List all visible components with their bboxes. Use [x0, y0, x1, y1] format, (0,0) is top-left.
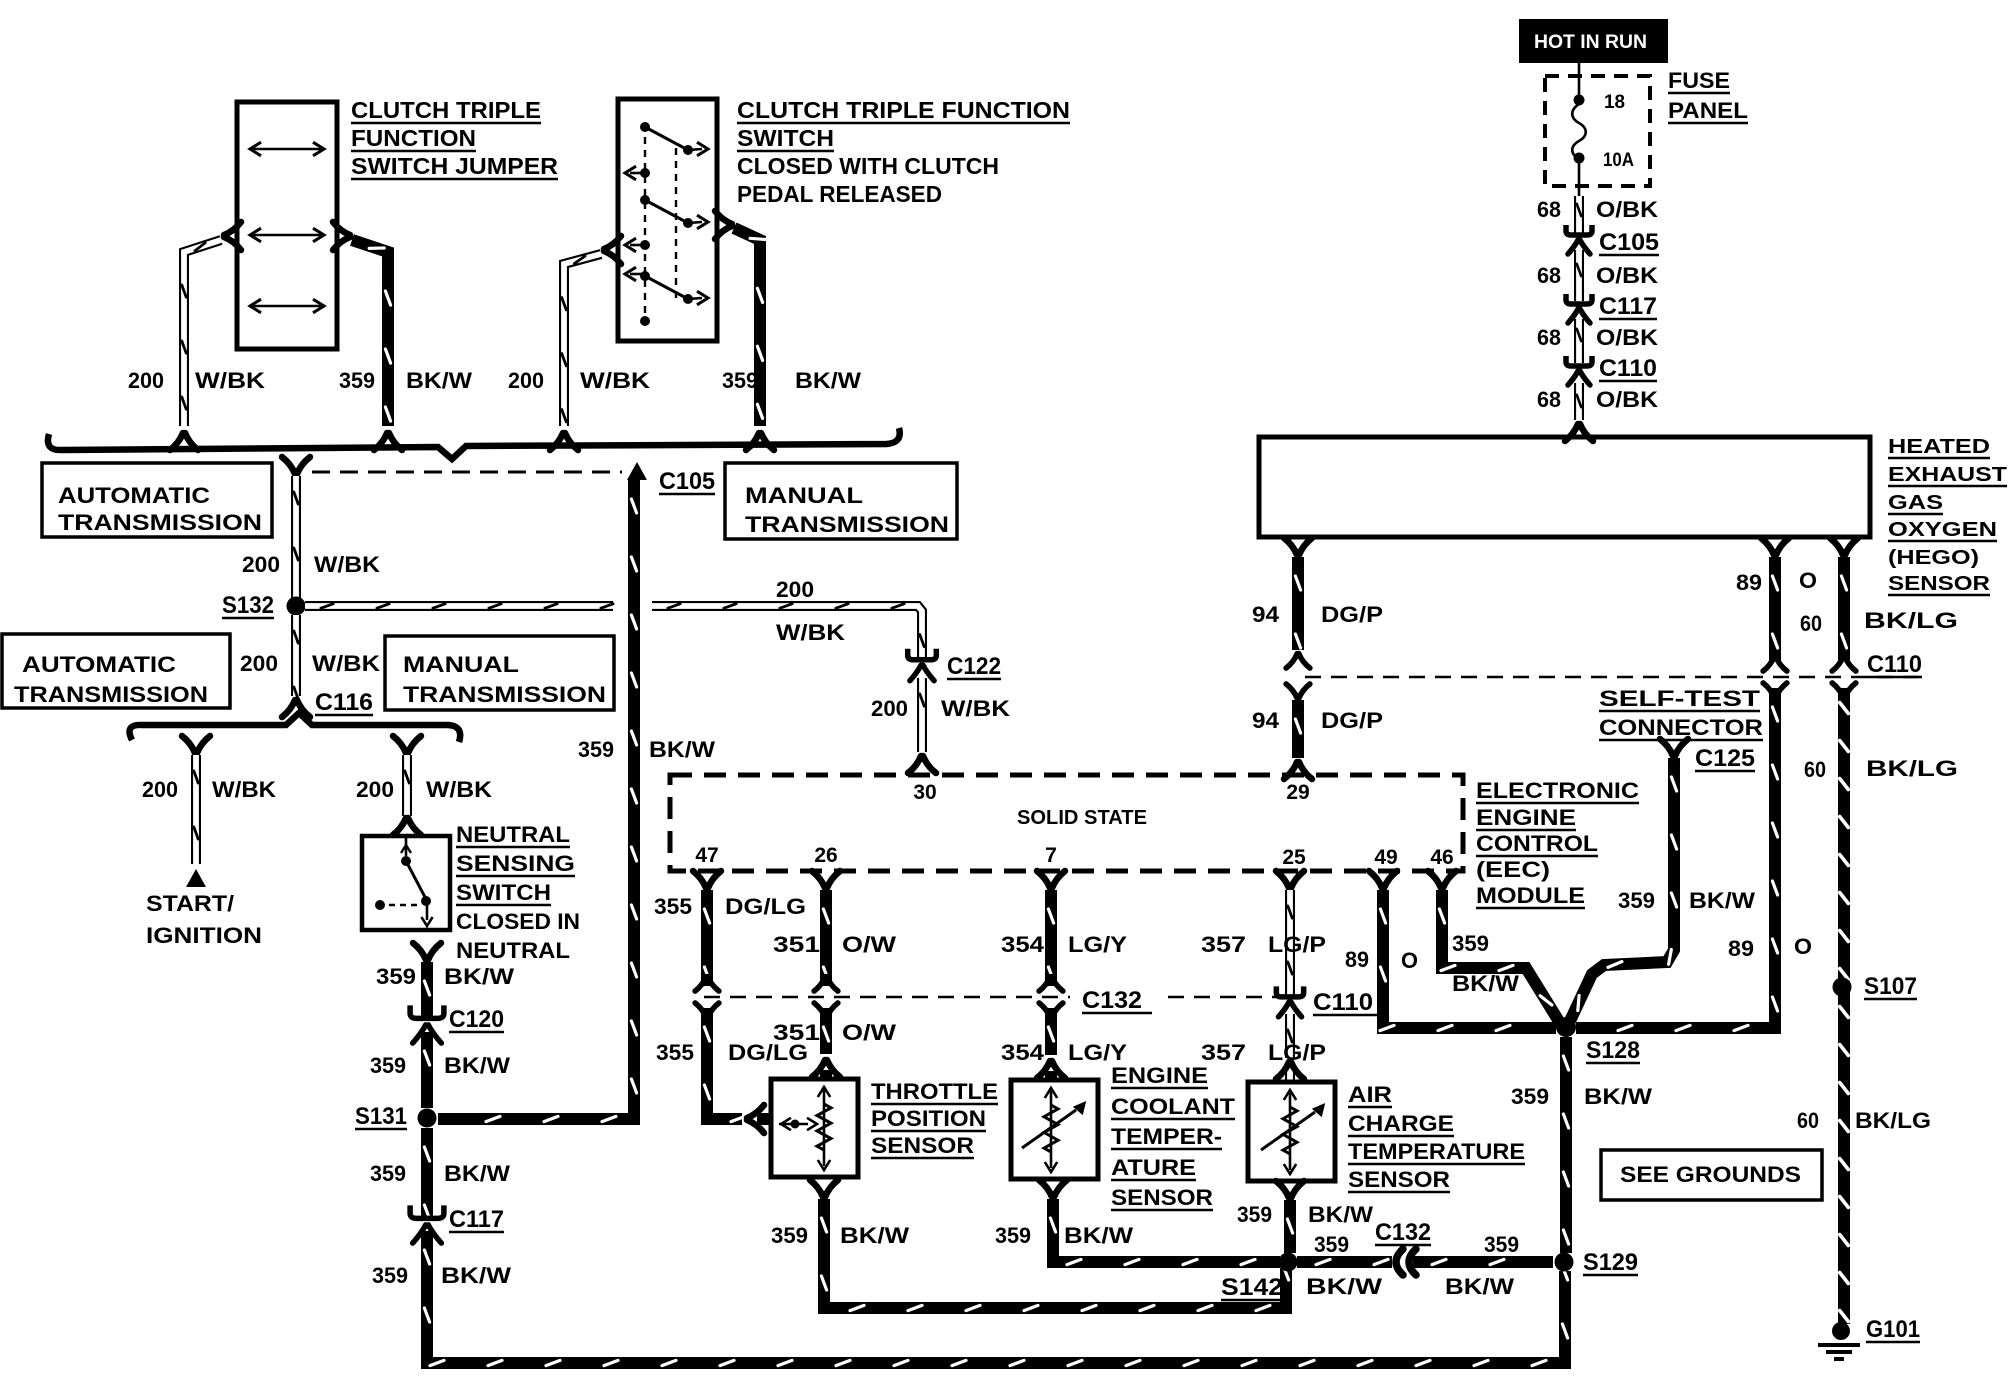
label 359 BK/W at pin 46 [1452, 931, 1519, 996]
svg-text:89: 89 [1728, 936, 1754, 961]
svg-text:ELECTRONIC: ELECTRONIC [1476, 778, 1639, 803]
svg-text:BK/W: BK/W [1445, 1274, 1514, 1299]
svg-text:FUNCTION: FUNCTION [351, 125, 476, 151]
svg-text:CLOSED IN: CLOSED IN [456, 909, 580, 934]
svg-text:OXYGEN: OXYGEN [1888, 519, 1997, 541]
svg-text:354: 354 [1001, 932, 1045, 957]
svg-text:355: 355 [654, 894, 692, 919]
label 200 W/BK [871, 696, 1010, 721]
label AIR CHARGE TEMPERATURE SENSOR [1348, 1082, 1525, 1192]
connector C120 [410, 1005, 504, 1043]
svg-text:C117: C117 [1599, 293, 1657, 320]
svg-text:W/BK: W/BK [776, 620, 845, 645]
clutch triple function switch jumper box [237, 102, 337, 349]
label 200 W/BK [508, 368, 650, 393]
svg-text:359: 359 [339, 368, 375, 393]
svg-text:359: 359 [1511, 1084, 1549, 1109]
wire 359 BK/W engine coolant temperature sensor to S142 [1039, 1180, 1280, 1265]
wire 68 O/BK C117 to C110 [1574, 319, 1584, 363]
svg-text:LG/P: LG/P [1268, 1040, 1326, 1065]
svg-text:C122: C122 [947, 653, 1001, 680]
wire 60 BK/LG HEGO to G101 [1830, 538, 1858, 1324]
svg-text:60: 60 [1800, 611, 1822, 636]
manual transmission label box upper [725, 463, 957, 539]
svg-text:89: 89 [1736, 570, 1762, 595]
connector C122 [908, 649, 1001, 681]
wire 359 BK/W pin 46 to S128 [1428, 871, 1560, 1023]
label NEUTRAL SENSING SWITCH CLOSED IN NEUTRAL [456, 822, 580, 963]
svg-text:C125: C125 [1695, 745, 1755, 772]
label 60 BK/LG middle [1804, 756, 1958, 782]
wire 359 BK/W C132 to S129 [1413, 1256, 1553, 1268]
svg-text:S132: S132 [222, 592, 274, 619]
connector C117 inline [1566, 293, 1657, 323]
svg-text:DG/P: DG/P [1321, 602, 1383, 627]
svg-text:SENSOR: SENSOR [1111, 1185, 1213, 1210]
svg-text:O/BK: O/BK [1596, 197, 1658, 222]
svg-text:SWITCH JUMPER: SWITCH JUMPER [351, 153, 558, 179]
svg-text:200: 200 [142, 777, 178, 802]
svg-text:BK/W: BK/W [649, 737, 715, 762]
svg-text:TRANSMISSION: TRANSMISSION [58, 510, 262, 535]
wire 359 BK/W S142 to C132 [1297, 1256, 1392, 1268]
label ELECTRONIC ENGINE CONTROL (EEC) MODULE [1476, 778, 1639, 908]
svg-text:S131: S131 [355, 1103, 407, 1130]
connector C105 arrow [627, 462, 647, 480]
wire 68 O/BK C105 to C117 [1574, 250, 1584, 301]
connector C105 inline [1566, 225, 1659, 256]
svg-text:BK/W: BK/W [840, 1223, 909, 1248]
label 60 BK/LG lower [1797, 1108, 1931, 1133]
svg-text:BK/W: BK/W [1064, 1223, 1133, 1248]
label C105 [659, 468, 715, 495]
svg-text:68: 68 [1537, 325, 1561, 350]
svg-text:359: 359 [376, 964, 416, 989]
svg-text:357: 357 [1201, 932, 1246, 957]
svg-text:BK/W: BK/W [444, 1161, 510, 1186]
wire 359 BK/W right of switch [715, 211, 774, 450]
svg-text:C105: C105 [1599, 229, 1659, 256]
svg-text:(HEGO): (HEGO) [1888, 547, 1979, 569]
label 94 DG/P upper [1252, 602, 1383, 627]
wire 200 W/BK left of switch [550, 236, 621, 450]
svg-text:SENSING: SENSING [456, 851, 575, 876]
svg-text:HEATED: HEATED [1888, 436, 1990, 458]
svg-text:200: 200 [128, 368, 164, 393]
label CLUTCH TRIPLE FUNCTION SWITCH JUMPER [351, 97, 558, 179]
svg-text:46: 46 [1430, 846, 1453, 869]
wire 94 DG/P C110 to EEC pin 29 [1284, 684, 1312, 779]
label 89 O upper [1736, 568, 1817, 595]
wire 200 W/BK to start/ignition [182, 736, 210, 864]
svg-text:SEE GROUNDS: SEE GROUNDS [1620, 1162, 1801, 1187]
label FUSE PANEL [1668, 68, 1748, 123]
svg-text:TEMPER-: TEMPER- [1111, 1124, 1222, 1149]
wire 359 BK/W C120 to S131 [421, 1032, 433, 1108]
svg-text:NEUTRAL: NEUTRAL [456, 822, 570, 847]
wire hatch marks 68 O/BK [1577, 204, 1581, 407]
label 359 BK/W at self-test [1618, 888, 1755, 913]
label 359 BK/W left of C132 [1306, 1232, 1382, 1299]
wire 355 DG/LG pin 47 to throttle position sensor [693, 871, 771, 1133]
svg-text:W/BK: W/BK [426, 777, 492, 802]
start/ignition source arrow [186, 869, 206, 887]
splice S129 [1555, 1249, 1639, 1276]
wire 200 W/BK from S132 to C122 [305, 604, 924, 657]
label THROTTLE POSITION SENSOR [871, 1079, 998, 1158]
svg-text:THROTTLE: THROTTLE [871, 1079, 998, 1104]
wire 354 LG/Y pin 7 to engine coolant temperature sensor [1037, 871, 1065, 1080]
wire 359 BK/W S128 to S129 [1560, 1037, 1572, 1253]
wire 359 BK/W right of switch jumper [333, 222, 402, 450]
wire bus bracket upper [48, 428, 900, 459]
connector C110 inline [1566, 355, 1657, 385]
label 359 BK/W [995, 1223, 1133, 1248]
heated exhaust gas oxygen sensor box [1259, 437, 1870, 537]
wire 200 W/BK bracket to S132 [282, 457, 310, 598]
svg-text:359: 359 [578, 737, 614, 762]
wire 359 BK/W self-test connector to S128 [1570, 758, 1674, 1021]
label 357 LG/P upper [1201, 932, 1326, 957]
ground G101 [1818, 1322, 1860, 1359]
svg-text:SWITCH: SWITCH [456, 880, 551, 905]
label 94 DG/P lower [1252, 708, 1383, 733]
svg-text:354: 354 [1001, 1040, 1045, 1065]
svg-text:NEUTRAL: NEUTRAL [456, 938, 570, 963]
wire 68 O/BK C110 to HEGO [1565, 383, 1593, 441]
svg-text:351: 351 [773, 932, 820, 957]
label 359 BK/W [370, 1161, 510, 1186]
svg-text:AIR: AIR [1348, 1082, 1392, 1107]
label 200 W/BK [356, 777, 492, 802]
svg-text:AUTOMATIC: AUTOMATIC [58, 483, 210, 508]
svg-text:BK/W: BK/W [441, 1263, 511, 1288]
svg-text:O: O [1799, 568, 1817, 593]
label 89 O lower [1728, 934, 1812, 961]
wire 200 W/BK to neutral sensing switch [393, 736, 421, 835]
svg-text:CONTROL: CONTROL [1476, 831, 1598, 856]
svg-text:W/BK: W/BK [195, 368, 265, 393]
label 200 W/BK [240, 651, 380, 676]
wire 200 W/BK C122 to EEC pin 30 [908, 678, 936, 773]
svg-text:CLUTCH TRIPLE: CLUTCH TRIPLE [351, 97, 541, 123]
splice S131 [355, 1103, 437, 1130]
svg-text:(EEC): (EEC) [1476, 857, 1550, 882]
svg-text:359: 359 [995, 1223, 1031, 1248]
wire 359 BK/W air charge temperature sensor to S142 [1276, 1181, 1304, 1253]
svg-text:359: 359 [771, 1223, 808, 1248]
svg-text:COOLANT: COOLANT [1111, 1094, 1236, 1119]
connector C117 lower [410, 1205, 504, 1243]
svg-text:200: 200 [242, 552, 280, 577]
svg-text:ENGINE: ENGINE [1476, 805, 1576, 830]
svg-text:359: 359 [1618, 888, 1655, 913]
svg-text:BK/W: BK/W [444, 1053, 510, 1078]
svg-text:S128: S128 [1586, 1037, 1640, 1064]
label 68 O/BK [1537, 197, 1658, 222]
svg-text:EXHAUST: EXHAUST [1888, 464, 2007, 486]
svg-text:W/BK: W/BK [580, 368, 650, 393]
label 359 BK/W [578, 737, 715, 762]
svg-text:TRANSMISSION: TRANSMISSION [14, 682, 208, 707]
svg-text:BK/LG: BK/LG [1864, 608, 1958, 633]
label 200 W/BK [242, 552, 380, 577]
svg-text:68: 68 [1537, 387, 1561, 412]
svg-text:MANUAL: MANUAL [403, 652, 519, 677]
svg-text:TEMPERATURE: TEMPERATURE [1348, 1139, 1525, 1164]
label 359 BK/W [376, 964, 514, 989]
svg-text:200: 200 [356, 777, 394, 802]
wire 359 BK/W from C105 to S131 [438, 480, 634, 1119]
svg-text:29: 29 [1286, 781, 1309, 804]
svg-text:CHARGE: CHARGE [1348, 1111, 1454, 1136]
svg-text:68: 68 [1537, 263, 1561, 288]
svg-text:C132: C132 [1082, 987, 1142, 1014]
svg-text:W/BK: W/BK [212, 777, 276, 802]
svg-text:W/BK: W/BK [312, 651, 380, 676]
svg-text:94: 94 [1252, 602, 1280, 627]
svg-text:359: 359 [1314, 1232, 1349, 1257]
svg-text:C117: C117 [449, 1206, 504, 1233]
hot in run tag [1520, 20, 1667, 62]
label 351 O/W lower [773, 1020, 896, 1045]
label 68 O/BK [1537, 387, 1658, 412]
svg-text:DG/LG: DG/LG [725, 894, 806, 919]
svg-text:BK/W: BK/W [795, 368, 861, 393]
svg-text:W/BK: W/BK [314, 552, 380, 577]
svg-text:C105: C105 [659, 468, 715, 495]
svg-text:GAS: GAS [1888, 492, 1943, 514]
label SELF-TEST CONNECTOR [1599, 686, 1763, 740]
svg-text:60: 60 [1804, 757, 1826, 782]
svg-text:359: 359 [1484, 1232, 1519, 1257]
svg-text:HOT IN RUN: HOT IN RUN [1534, 32, 1647, 53]
svg-text:G101: G101 [1866, 1316, 1920, 1343]
automatic transmission label box upper [42, 463, 272, 537]
wire 89 O HEGO to S128 [1576, 538, 1789, 1031]
svg-text:TRANSMISSION: TRANSMISSION [403, 682, 606, 707]
svg-text:S129: S129 [1583, 1249, 1638, 1276]
svg-text:10A: 10A [1603, 150, 1634, 171]
svg-text:MANUAL: MANUAL [745, 483, 863, 508]
svg-text:7: 7 [1045, 844, 1057, 867]
wire 68 O/BK fuse to C105 [1574, 196, 1584, 233]
label 354 LG/Y upper [1001, 932, 1127, 957]
label 351 O/W upper [773, 932, 896, 957]
svg-text:S107: S107 [1864, 973, 1917, 1000]
svg-text:BK/LG: BK/LG [1866, 756, 1958, 781]
label 355 DG/LG lower [656, 1040, 808, 1065]
svg-text:89: 89 [1345, 947, 1369, 972]
label 359 BK/W right of C132 [1445, 1232, 1519, 1299]
svg-text:68: 68 [1537, 197, 1561, 222]
svg-text:200: 200 [508, 368, 544, 393]
svg-text:LG/P: LG/P [1268, 932, 1326, 957]
see grounds label box [1601, 1150, 1822, 1200]
svg-text:C110: C110 [1867, 651, 1922, 678]
label 359 BK/W [1511, 1084, 1652, 1109]
label 359 BK/W [1237, 1202, 1373, 1227]
svg-text:359: 359 [370, 1053, 406, 1078]
svg-text:PANEL: PANEL [1668, 98, 1748, 123]
svg-text:25: 25 [1282, 846, 1306, 869]
EEC module box [670, 775, 1463, 871]
svg-text:PEDAL RELEASED: PEDAL RELEASED [737, 181, 942, 207]
svg-text:SELF-TEST: SELF-TEST [1599, 686, 1761, 711]
splice S107 [1833, 973, 1918, 1000]
svg-text:94: 94 [1252, 708, 1280, 733]
wire 94 DG/P HEGO to C110 [1284, 538, 1312, 668]
label 355 DG/LG upper [654, 894, 806, 919]
svg-text:LG/Y: LG/Y [1068, 932, 1127, 957]
svg-text:CONNECTOR: CONNECTOR [1599, 715, 1763, 740]
svg-text:BK/W: BK/W [1308, 1202, 1373, 1227]
manual transmission label box lower [385, 636, 614, 710]
svg-text:18: 18 [1604, 92, 1625, 113]
svg-text:49: 49 [1374, 846, 1397, 869]
splice S128 [1556, 1017, 1640, 1064]
label 200 W/BK [128, 368, 265, 393]
wire 89 O pin 49 to S128 [1369, 871, 1556, 1031]
neutral sensing switch box [362, 836, 450, 930]
svg-text:351: 351 [773, 1020, 820, 1045]
label 359 BK/W [339, 368, 472, 393]
throttle position sensor box [771, 1079, 858, 1177]
svg-text:359: 359 [1237, 1202, 1272, 1227]
label 357 LG/P lower [1201, 1040, 1326, 1065]
svg-text:200: 200 [240, 651, 278, 676]
svg-text:SOLID STATE: SOLID STATE [1017, 807, 1147, 829]
wire 357 LG/P pin 25 to air charge temperature sensor [1276, 871, 1304, 1082]
svg-text:CLOSED WITH CLUTCH: CLOSED WITH CLUTCH [737, 153, 999, 179]
svg-text:SENSOR: SENSOR [1348, 1167, 1450, 1192]
wire 359 BK/W switch to C120 [413, 943, 441, 1016]
svg-text:C110: C110 [1313, 989, 1373, 1016]
label 359 BK/W [771, 1223, 909, 1248]
label 354 LG/Y lower [1001, 1040, 1127, 1065]
svg-text:START/: START/ [146, 891, 234, 916]
svg-text:26: 26 [814, 844, 837, 867]
svg-text:O/BK: O/BK [1596, 325, 1658, 350]
svg-text:ENGINE: ENGINE [1111, 1063, 1208, 1088]
svg-text:47: 47 [695, 844, 718, 867]
dashed branch line to C105 [312, 471, 622, 474]
connector C125 [1660, 739, 1755, 772]
svg-text:359: 359 [372, 1263, 408, 1288]
svg-text:C110: C110 [1599, 355, 1657, 382]
svg-text:O: O [1794, 934, 1812, 959]
svg-text:ATURE: ATURE [1111, 1155, 1196, 1180]
svg-text:200: 200 [871, 696, 908, 721]
wire bus bracket lower [130, 713, 461, 742]
svg-text:O/W: O/W [842, 932, 896, 957]
svg-text:TRANSMISSION: TRANSMISSION [745, 512, 949, 537]
svg-text:O/BK: O/BK [1596, 387, 1658, 412]
svg-text:BK/W: BK/W [444, 964, 514, 989]
label 60 BK/LG upper [1800, 608, 1958, 636]
clutch triple function switch box [618, 99, 717, 341]
engine coolant temperature sensor box [1011, 1080, 1098, 1179]
svg-text:LG/Y: LG/Y [1068, 1040, 1127, 1065]
svg-text:CLUTCH TRIPLE FUNCTION: CLUTCH TRIPLE FUNCTION [737, 97, 1070, 123]
svg-text:359: 359 [370, 1161, 406, 1186]
svg-text:SENSOR: SENSOR [1888, 573, 1991, 595]
label START/IGNITION [146, 891, 262, 948]
svg-text:355: 355 [656, 1040, 694, 1065]
label ENGINE COOLANT TEMPERATURE SENSOR [1111, 1063, 1236, 1210]
svg-text:60: 60 [1797, 1108, 1819, 1133]
svg-text:BK/W: BK/W [1306, 1274, 1382, 1299]
svg-text:BK/W: BK/W [406, 368, 472, 393]
label HEATED EXHAUST GAS OXYGEN (HEGO) SENSOR [1888, 436, 2007, 595]
svg-text:359: 359 [722, 368, 758, 393]
svg-text:BK/LG: BK/LG [1855, 1108, 1931, 1133]
splice S132 [222, 592, 306, 619]
label 359 BK/W [372, 1263, 511, 1288]
svg-text:357: 357 [1201, 1040, 1246, 1065]
label 200 W/BK [142, 777, 276, 802]
label 200 W/BK [776, 577, 845, 645]
wire 359 BK/W S131 to C117 [421, 1128, 433, 1216]
wire 359 BK/W C117 to S129 along bottom [427, 1231, 1565, 1363]
label 68 O/BK [1537, 263, 1658, 288]
label 89 O at pin 49 [1345, 947, 1418, 973]
svg-text:C120: C120 [449, 1006, 504, 1033]
svg-text:S142: S142 [1221, 1274, 1283, 1301]
svg-text:SWITCH: SWITCH [737, 125, 834, 151]
svg-text:IGNITION: IGNITION [146, 923, 262, 948]
label 359 BK/W [370, 1053, 510, 1078]
wire 200 W/BK S132 to C116 [282, 615, 310, 717]
svg-text:30: 30 [913, 781, 936, 804]
wire 359 BK/W throttle position sensor to S142 [810, 1180, 1289, 1311]
connector C132 inline arrows [1375, 1219, 1431, 1275]
label 68 O/BK [1537, 325, 1658, 350]
svg-text:AUTOMATIC: AUTOMATIC [22, 652, 176, 677]
svg-text:POSITION: POSITION [871, 1106, 986, 1131]
svg-text:FUSE: FUSE [1668, 68, 1730, 93]
fuse 10A [1572, 62, 1586, 196]
svg-text:C116: C116 [315, 689, 373, 716]
svg-text:W/BK: W/BK [941, 696, 1010, 721]
svg-text:SENSOR: SENSOR [871, 1133, 974, 1158]
svg-text:C132: C132 [1375, 1219, 1431, 1246]
svg-text:O: O [1401, 948, 1418, 973]
splice S142 [1221, 1253, 1298, 1302]
label CLUTCH TRIPLE FUNCTION SWITCH CLOSED WITH CLUTCH PEDAL RELEASED [737, 97, 1070, 207]
connector line C132 C110 dashed [704, 996, 1294, 999]
svg-text:DG/P: DG/P [1321, 708, 1383, 733]
svg-text:O/BK: O/BK [1596, 263, 1658, 288]
automatic transmission label box lower [2, 634, 230, 708]
connector C110 dashed line [1305, 651, 1922, 678]
svg-text:359: 359 [1452, 931, 1489, 956]
svg-text:200: 200 [776, 577, 814, 602]
svg-text:BK/W: BK/W [1452, 971, 1519, 996]
wire 351 O/W pin 26 to throttle position sensor [812, 871, 840, 1079]
svg-text:MODULE: MODULE [1476, 883, 1585, 908]
fuse panel box [1545, 76, 1650, 186]
svg-text:BK/W: BK/W [1689, 888, 1755, 913]
label 359 BK/W [722, 368, 861, 393]
svg-text:BK/W: BK/W [1584, 1084, 1652, 1109]
air charge temperature sensor box [1248, 1082, 1335, 1181]
wire 200 W/BK left of switch jumper [170, 222, 241, 450]
svg-text:O/W: O/W [842, 1020, 896, 1045]
